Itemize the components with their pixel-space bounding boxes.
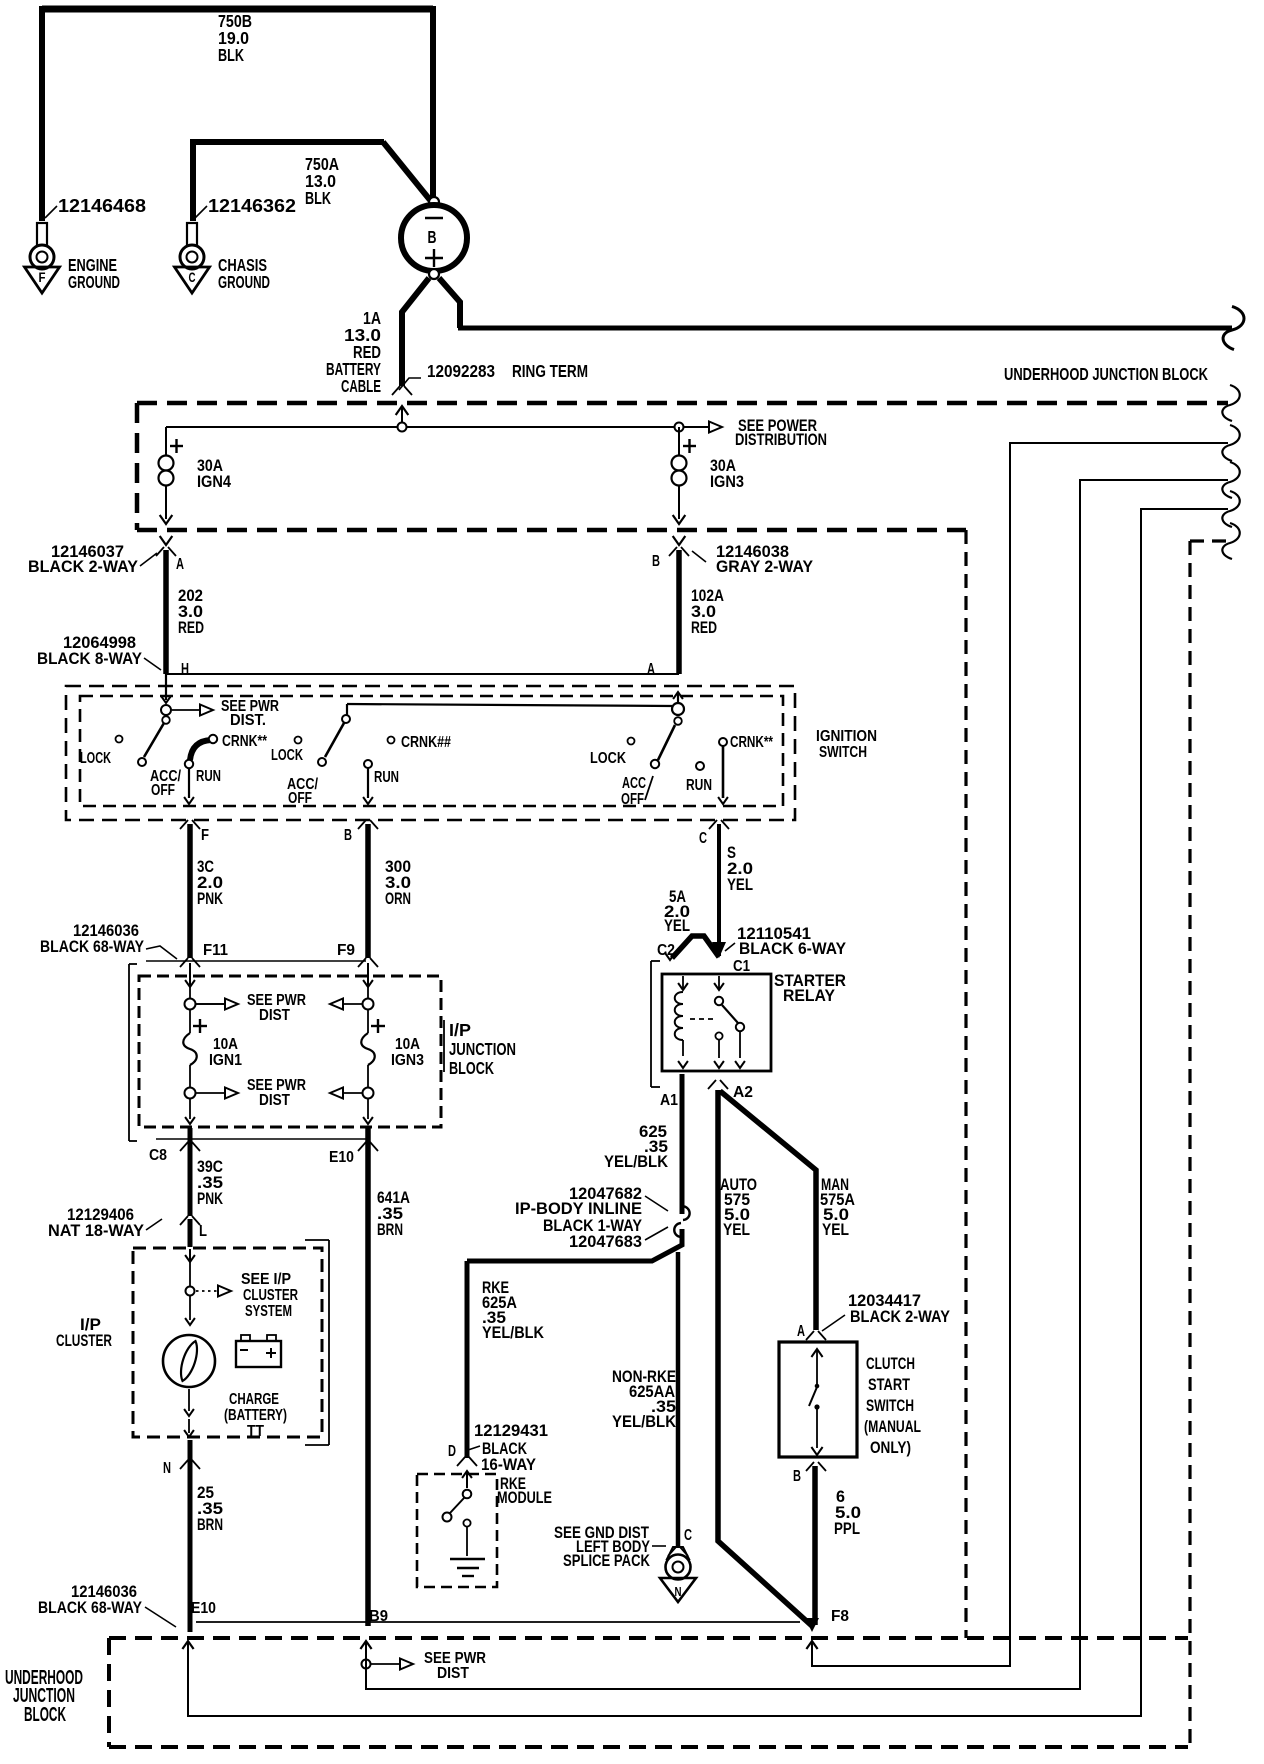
svg-text:F9: F9: [337, 942, 355, 959]
svg-text:B: B: [344, 827, 352, 844]
svg-text:(BATTERY): (BATTERY): [224, 1407, 287, 1424]
svg-text:RED: RED: [691, 619, 717, 637]
svg-text:IGN4: IGN4: [197, 473, 232, 491]
svg-text:START: START: [868, 1376, 910, 1394]
svg-text:CRNK**: CRNK**: [730, 734, 774, 751]
svg-text:SPLICE PACK: SPLICE PACK: [563, 1552, 650, 1570]
svg-text:ACC: ACC: [622, 775, 646, 792]
svg-text:MODULE: MODULE: [497, 1489, 552, 1507]
svg-text:12092283: 12092283: [427, 361, 495, 381]
svg-text:CLUSTER: CLUSTER: [243, 1287, 298, 1304]
svg-text:IGNITION: IGNITION: [816, 728, 877, 745]
svg-text:IP-BODY INLINE: IP-BODY INLINE: [515, 1200, 642, 1218]
svg-text:E10: E10: [329, 1149, 354, 1166]
svg-text:E10: E10: [191, 1600, 216, 1617]
svg-text:YEL: YEL: [822, 1221, 849, 1239]
svg-text:F: F: [201, 827, 209, 844]
svg-text:LOCK: LOCK: [590, 750, 626, 767]
svg-text:PPL: PPL: [834, 1520, 860, 1538]
svg-text:BLOCK: BLOCK: [449, 1058, 494, 1078]
svg-text:CLUSTER: CLUSTER: [56, 1332, 112, 1350]
svg-text:A: A: [176, 556, 184, 573]
svg-text:BLACK 68-WAY: BLACK 68-WAY: [38, 1599, 142, 1617]
svg-text:CHARGE: CHARGE: [229, 1391, 279, 1408]
svg-text:B: B: [428, 227, 437, 247]
svg-text:A: A: [797, 1323, 805, 1340]
svg-text:DISTRIBUTION: DISTRIBUTION: [735, 431, 827, 449]
svg-text:BLACK 8-WAY: BLACK 8-WAY: [37, 650, 142, 668]
svg-text:PNK: PNK: [197, 1190, 223, 1208]
svg-text:IGN3: IGN3: [391, 1052, 424, 1069]
svg-text:A1: A1: [660, 1092, 678, 1109]
svg-text:(MANUAL: (MANUAL: [864, 1418, 921, 1436]
svg-text:12129431: 12129431: [474, 1422, 548, 1440]
svg-text:10A: 10A: [395, 1036, 420, 1053]
svg-text:F11: F11: [203, 942, 228, 959]
svg-text:C1: C1: [733, 958, 750, 975]
svg-text:BLACK 6-WAY: BLACK 6-WAY: [739, 940, 846, 958]
svg-text:RING TERM: RING TERM: [512, 361, 588, 381]
svg-text:10A: 10A: [213, 1036, 238, 1053]
svg-text:N: N: [675, 1584, 682, 1599]
svg-text:CLUTCH: CLUTCH: [866, 1355, 915, 1373]
svg-text:BLOCK: BLOCK: [24, 1704, 66, 1726]
svg-text:RUN: RUN: [686, 777, 712, 794]
svg-text:IGN1: IGN1: [209, 1052, 242, 1069]
svg-text:SWITCH: SWITCH: [866, 1397, 914, 1415]
svg-text:SWITCH: SWITCH: [819, 744, 867, 761]
svg-text:CABLE: CABLE: [341, 376, 381, 396]
svg-text:A2: A2: [733, 1084, 753, 1101]
svg-text:SEE I/P: SEE I/P: [241, 1271, 291, 1288]
svg-text:GROUND: GROUND: [68, 272, 120, 292]
svg-text:BLK: BLK: [305, 188, 331, 208]
svg-text:YEL/BLK: YEL/BLK: [612, 1413, 676, 1431]
svg-text:CRNK**: CRNK**: [222, 733, 268, 750]
svg-text:BLACK 68-WAY: BLACK 68-WAY: [40, 938, 144, 956]
svg-text:DIST: DIST: [259, 1092, 290, 1109]
svg-text:OFF: OFF: [621, 791, 644, 808]
svg-text:DIST: DIST: [437, 1665, 469, 1682]
svg-text:ORN: ORN: [385, 890, 411, 908]
svg-text:UNDERHOOD JUNCTION BLOCK: UNDERHOOD JUNCTION BLOCK: [1004, 365, 1208, 384]
svg-text:GROUND: GROUND: [218, 272, 270, 292]
svg-text:F: F: [39, 270, 46, 286]
svg-text:LOCK: LOCK: [271, 747, 303, 764]
svg-text:ONLY): ONLY): [870, 1439, 911, 1457]
svg-text:C8: C8: [149, 1147, 167, 1164]
svg-text:OFF: OFF: [151, 782, 175, 799]
svg-text:N: N: [163, 1460, 171, 1477]
svg-text:LOCK: LOCK: [80, 750, 111, 767]
svg-text:RED: RED: [178, 619, 204, 637]
svg-text:16-WAY: 16-WAY: [481, 1456, 536, 1474]
svg-text:GRAY 2-WAY: GRAY 2-WAY: [716, 558, 813, 576]
svg-text:BRN: BRN: [377, 1221, 403, 1239]
svg-text:B9: B9: [369, 1608, 388, 1625]
svg-text:H: H: [181, 661, 189, 678]
svg-text:F8: F8: [831, 1608, 849, 1625]
svg-text:I/P: I/P: [449, 1020, 471, 1040]
svg-text:PNK: PNK: [197, 890, 223, 908]
svg-text:12047683: 12047683: [569, 1233, 642, 1251]
svg-text:CRNK##: CRNK##: [401, 734, 451, 751]
svg-text:YEL/BLK: YEL/BLK: [604, 1153, 668, 1171]
svg-text:D: D: [448, 1443, 456, 1460]
svg-text:TT: TT: [247, 1423, 264, 1440]
svg-text:BRN: BRN: [197, 1516, 223, 1534]
svg-text:YEL: YEL: [664, 917, 690, 935]
svg-text:BLACK 2-WAY: BLACK 2-WAY: [850, 1308, 950, 1326]
svg-text:B: B: [793, 1468, 801, 1485]
svg-text:C: C: [684, 1527, 692, 1544]
svg-text:RUN: RUN: [374, 769, 399, 786]
svg-text:SYSTEM: SYSTEM: [245, 1303, 292, 1320]
svg-text:RELAY: RELAY: [783, 987, 835, 1005]
svg-text:OFF: OFF: [288, 790, 312, 807]
svg-text:IGN3: IGN3: [710, 473, 744, 491]
svg-text:JUNCTION: JUNCTION: [449, 1039, 516, 1059]
svg-text:12146362: 12146362: [208, 196, 296, 217]
svg-text:BLACK 2-WAY: BLACK 2-WAY: [28, 558, 138, 576]
svg-text:YEL: YEL: [723, 1221, 750, 1239]
svg-text:RUN: RUN: [196, 768, 221, 785]
svg-text:C: C: [699, 830, 707, 847]
svg-text:C2: C2: [657, 942, 675, 959]
svg-text:NAT 18-WAY: NAT 18-WAY: [48, 1222, 144, 1240]
svg-text:DIST: DIST: [259, 1007, 290, 1024]
svg-text:C: C: [189, 270, 196, 286]
svg-text:B: B: [652, 553, 660, 570]
svg-text:L: L: [199, 1223, 207, 1240]
svg-text:12146468: 12146468: [58, 196, 146, 217]
svg-text:YEL: YEL: [727, 876, 753, 894]
svg-text:YEL/BLK: YEL/BLK: [482, 1324, 544, 1342]
svg-text:BLK: BLK: [218, 45, 244, 65]
svg-text:A: A: [647, 661, 655, 678]
svg-text:DIST.: DIST.: [230, 712, 266, 729]
